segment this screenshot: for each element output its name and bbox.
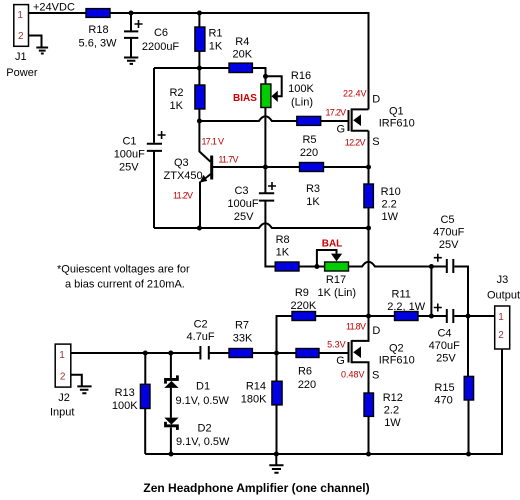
svg-text:11.8V: 11.8V bbox=[346, 322, 366, 332]
D2 triangle bbox=[164, 418, 178, 425]
svg-text:1K: 1K bbox=[209, 40, 223, 52]
svg-text:Output: Output bbox=[487, 289, 520, 301]
capacitor C3 plates bbox=[259, 193, 274, 200]
wire R14 column bbox=[276, 353, 278, 454]
Q3 collector lead bbox=[199, 152, 210, 162]
Q2 gate bar bbox=[348, 342, 350, 363]
capacitor C1 plates bbox=[147, 144, 162, 151]
svg-text:2: 2 bbox=[498, 330, 504, 341]
svg-text:22.4V: 22.4V bbox=[343, 89, 367, 99]
R16 wiper arrow bbox=[271, 91, 277, 102]
svg-text:1W: 1W bbox=[384, 417, 401, 429]
resistor R13 bbox=[140, 384, 150, 408]
svg-text:220: 220 bbox=[298, 379, 316, 391]
svg-text:5.3V: 5.3V bbox=[327, 340, 346, 350]
svg-text:S: S bbox=[372, 370, 379, 382]
wire C6 stubs bbox=[130, 13, 132, 58]
svg-text:0.48V: 0.48V bbox=[341, 370, 365, 380]
svg-text:1: 1 bbox=[59, 350, 65, 361]
wire C1 column bbox=[153, 68, 155, 228]
resistor R9 bbox=[292, 312, 316, 321]
svg-text:5.6, 3W: 5.6, 3W bbox=[79, 38, 118, 50]
D2 bar tick right down bbox=[176, 427, 179, 430]
svg-text:C4: C4 bbox=[437, 328, 451, 340]
wire R13 column bbox=[144, 353, 146, 454]
svg-text:R11: R11 bbox=[392, 288, 411, 300]
svg-text:J2: J2 bbox=[58, 392, 70, 404]
Q2 arrow bbox=[353, 346, 361, 358]
svg-text:17.2V: 17.2V bbox=[325, 108, 346, 118]
transistor Q2 IRF610 bbox=[348, 316, 369, 454]
wire gate row y121 with hop over R16 column bbox=[199, 116, 348, 121]
svg-text:R16: R16 bbox=[291, 70, 311, 82]
junction node R16 top wiper bbox=[263, 74, 268, 79]
svg-text:2: 2 bbox=[60, 371, 66, 382]
resistor R18 bbox=[86, 9, 110, 18]
svg-text:100uF: 100uF bbox=[114, 149, 145, 161]
D1 bar tick right up bbox=[176, 375, 179, 378]
resistor R7 bbox=[229, 349, 252, 358]
svg-text:1: 1 bbox=[498, 312, 504, 323]
junction node R13 top bbox=[143, 351, 148, 356]
svg-text:a bias current of 210mA.: a bias current of 210mA. bbox=[65, 279, 185, 291]
D2 bar tick left up bbox=[164, 422, 167, 425]
svg-text:J1: J1 bbox=[15, 51, 27, 63]
svg-text:470uF: 470uF bbox=[433, 227, 464, 239]
connector J3 box bbox=[495, 306, 510, 349]
resistor R8 bbox=[275, 262, 299, 271]
svg-text:1K (Lin): 1K (Lin) bbox=[318, 287, 357, 299]
svg-text:D: D bbox=[372, 94, 380, 106]
junction node R7 R6 R14 bbox=[274, 351, 279, 356]
svg-text:11.7V: 11.7V bbox=[218, 155, 238, 165]
C4 plus sign bbox=[434, 304, 442, 312]
svg-text:1: 1 bbox=[17, 10, 23, 21]
svg-text:2.2, 1W: 2.2, 1W bbox=[387, 301, 426, 313]
svg-text:1K: 1K bbox=[276, 247, 290, 259]
C5 plus sign bbox=[434, 254, 442, 262]
diode D2 zener bbox=[164, 418, 179, 430]
svg-text:2200uF: 2200uF bbox=[142, 41, 180, 53]
Q1 arrow bbox=[353, 114, 361, 126]
svg-text:IRF610: IRF610 bbox=[379, 355, 415, 367]
svg-text:220: 220 bbox=[300, 147, 318, 159]
wire right column Q1 source to Q2 drain node bbox=[368, 131, 370, 316]
svg-text:1W: 1W bbox=[382, 211, 399, 223]
wire output row y316 bbox=[369, 315, 495, 317]
C1 plus sign bbox=[158, 131, 166, 139]
junction node R10 bottom mid rail bbox=[366, 226, 371, 231]
Q3 emitter arrowhead bbox=[200, 175, 208, 183]
resistor R12 bbox=[364, 393, 374, 416]
junction node Q3 base row C3 bbox=[263, 165, 268, 170]
resistor R6 bbox=[296, 349, 319, 358]
resistor R14 bbox=[272, 381, 282, 405]
junction node C4 right J3 bbox=[466, 314, 471, 319]
transistor Q3 ZTX450 bbox=[199, 152, 213, 183]
junction node C4 left bbox=[429, 314, 434, 319]
svg-text:R10: R10 bbox=[381, 186, 401, 198]
resistor R11 bbox=[395, 312, 419, 321]
svg-text:Q3: Q3 bbox=[174, 157, 189, 169]
junction node Q3 emitter mid rail bbox=[197, 226, 202, 231]
connector J1 box bbox=[14, 5, 29, 47]
junction node C5 left bbox=[429, 264, 434, 269]
svg-text:1K: 1K bbox=[170, 100, 184, 112]
junction node D1 top bbox=[168, 351, 173, 356]
Q1 channel bar bbox=[351, 108, 353, 131]
svg-text:100K: 100K bbox=[112, 400, 138, 412]
svg-text:C2: C2 bbox=[194, 319, 208, 331]
capacitor C5 plates bbox=[447, 259, 454, 273]
capacitor C6 plates bbox=[124, 31, 138, 38]
transistor Q1 IRF610 bbox=[348, 108, 369, 131]
wire C3 bottom to BAL row through hop to C5 bbox=[265, 201, 446, 267]
svg-text:BIAS: BIAS bbox=[233, 93, 257, 104]
svg-text:2: 2 bbox=[18, 31, 24, 42]
svg-text:470: 470 bbox=[434, 394, 452, 406]
junction node R2 bottom gate row bbox=[197, 119, 202, 124]
svg-text:9.1V, 0.5W: 9.1V, 0.5W bbox=[176, 395, 230, 407]
resistor R2 bbox=[195, 85, 205, 109]
svg-text:33K: 33K bbox=[233, 332, 253, 344]
Q3 emitter lead bbox=[201, 174, 211, 182]
wire R17 wiper loop bbox=[317, 250, 337, 267]
svg-text:100K: 100K bbox=[288, 83, 314, 95]
svg-text:G: G bbox=[336, 124, 345, 136]
wire input row left of C2 bbox=[71, 352, 200, 354]
wire R15 column bbox=[467, 316, 470, 454]
svg-text:25V: 25V bbox=[119, 162, 139, 174]
diode D1 zener bbox=[164, 375, 179, 388]
Q2 channel bar bbox=[351, 340, 353, 363]
svg-text:R5: R5 bbox=[302, 134, 316, 146]
junction node R12 bottom rail bbox=[366, 452, 371, 457]
R17 wiper arrow bbox=[331, 254, 342, 262]
junction node R14 bottom ground bbox=[274, 452, 279, 457]
ground at bottom rail bbox=[269, 465, 283, 473]
capacitor C2 plates bbox=[200, 346, 208, 360]
svg-text:R9: R9 bbox=[295, 287, 309, 299]
svg-text:C1: C1 bbox=[122, 136, 136, 148]
Q3 bar bbox=[210, 156, 213, 180]
svg-text:25V: 25V bbox=[234, 211, 254, 223]
svg-text:J3: J3 bbox=[497, 274, 509, 286]
junction node R15 bottom rail bbox=[466, 452, 471, 457]
wire R16 wiper loop bbox=[266, 76, 282, 96]
svg-text:Zen Headphone Amplifier (one c: Zen Headphone Amplifier (one channel) bbox=[143, 481, 369, 495]
svg-text:11.2V: 11.2V bbox=[173, 190, 193, 200]
svg-text:Q1: Q1 bbox=[389, 105, 404, 117]
Q1 drain lead bbox=[352, 108, 369, 110]
svg-text:9.1V, 0.5W: 9.1V, 0.5W bbox=[176, 436, 230, 448]
potentiometer R17 body bbox=[325, 262, 349, 271]
ground at J2 pin2 bbox=[77, 386, 91, 393]
svg-text:25V: 25V bbox=[436, 353, 456, 365]
ground below C6 bbox=[124, 58, 138, 64]
junction node R1 bottom R4 bbox=[197, 66, 202, 71]
svg-text:100uF: 100uF bbox=[227, 198, 258, 210]
svg-text:(Lin): (Lin) bbox=[291, 97, 313, 109]
capacitor C4 plates bbox=[447, 309, 454, 323]
svg-text:D: D bbox=[372, 325, 380, 337]
svg-text:C3: C3 bbox=[234, 185, 248, 197]
resistor R3 bbox=[300, 163, 324, 172]
svg-text:IRF610: IRF610 bbox=[379, 117, 415, 129]
svg-text:R7: R7 bbox=[235, 320, 249, 332]
C6 plus sign bbox=[135, 20, 143, 28]
svg-text:R13: R13 bbox=[115, 387, 135, 399]
C3 plus sign bbox=[268, 182, 276, 190]
wire input row right of C2 to Q2 gate bbox=[210, 352, 349, 354]
svg-text:R8: R8 bbox=[276, 234, 290, 246]
svg-text:Q2: Q2 bbox=[389, 343, 404, 355]
wire ground stub bottom bbox=[275, 454, 277, 465]
resistor R4 bbox=[229, 63, 252, 72]
wire mid rail y228 with hop over C3 column bbox=[154, 223, 369, 228]
Q2 drain lead bbox=[352, 316, 369, 341]
wire Q3 emitter to mid rail bbox=[199, 182, 201, 229]
junction node R8 R17 wiper bbox=[314, 264, 319, 269]
wire row y167 base of Q3 to R10 top bbox=[213, 166, 369, 168]
wire diode column bbox=[170, 353, 172, 454]
svg-text:R6: R6 bbox=[298, 366, 312, 378]
svg-text:BAL: BAL bbox=[322, 239, 343, 250]
svg-text:Input: Input bbox=[50, 407, 74, 419]
wire C5/C4 link column bbox=[430, 267, 432, 317]
svg-text:R12: R12 bbox=[383, 392, 403, 404]
resistor R1 bbox=[195, 27, 205, 51]
wire row y68 from left column through R4 to R16 top bbox=[154, 68, 266, 84]
svg-text:470uF: 470uF bbox=[429, 340, 460, 352]
ground at J1 pin2 bbox=[36, 48, 48, 54]
svg-text:25V: 25V bbox=[439, 239, 459, 251]
svg-text:20K: 20K bbox=[233, 49, 253, 61]
svg-text:R17: R17 bbox=[326, 274, 346, 286]
svg-text:4.7uF: 4.7uF bbox=[187, 331, 215, 343]
wire J2 pin2 to ground bbox=[71, 375, 82, 387]
svg-text:1K: 1K bbox=[306, 196, 320, 208]
svg-text:R1: R1 bbox=[208, 27, 222, 39]
junction node R1 top bbox=[197, 11, 202, 16]
junction node D2 bottom rail bbox=[169, 452, 174, 457]
Q2 source lead bbox=[352, 362, 369, 454]
svg-text:G: G bbox=[336, 355, 345, 367]
svg-text:D1: D1 bbox=[196, 381, 210, 393]
D1 bar tick left down bbox=[164, 381, 167, 384]
svg-text:+24VDC: +24VDC bbox=[33, 1, 75, 13]
wire top rail from J1 pin1 to top-right corner down to Q1 drain bbox=[29, 13, 369, 109]
svg-text:R15: R15 bbox=[434, 382, 454, 394]
resistor R10 bbox=[364, 184, 374, 208]
potentiometer R16 body bbox=[261, 84, 271, 108]
connector J2 box bbox=[55, 344, 71, 387]
svg-text:12.2V: 12.2V bbox=[345, 138, 366, 148]
svg-text:2.2: 2.2 bbox=[384, 405, 399, 417]
svg-text:ZTX450: ZTX450 bbox=[164, 170, 203, 182]
Q1 gate bar bbox=[348, 110, 350, 131]
resistor R5 bbox=[297, 116, 321, 125]
svg-text:D2: D2 bbox=[198, 423, 212, 435]
wire R16 bottom through hop rows to C3 top bbox=[264, 108, 266, 193]
D1 cathode bar bbox=[164, 378, 179, 381]
svg-text:R18: R18 bbox=[88, 24, 108, 36]
svg-text:R14: R14 bbox=[246, 381, 266, 393]
svg-text:*Quiescent voltages are for: *Quiescent voltages are for bbox=[57, 264, 190, 276]
svg-text:S: S bbox=[372, 136, 379, 148]
junction node Q2 drain output bbox=[366, 314, 371, 319]
svg-text:180K: 180K bbox=[241, 393, 267, 405]
D2 cathode bar bbox=[164, 424, 179, 427]
wire R9 row and column bbox=[277, 316, 369, 353]
wire C5 right to output column bbox=[454, 267, 468, 317]
D1 triangle bbox=[164, 381, 178, 388]
svg-text:17.1 V: 17.1 V bbox=[202, 137, 225, 147]
svg-text:Power: Power bbox=[6, 67, 38, 79]
svg-text:C5: C5 bbox=[440, 214, 454, 226]
svg-text:2.2: 2.2 bbox=[382, 199, 397, 211]
svg-text:R3: R3 bbox=[306, 183, 320, 195]
wire J1 pin2 to ground stub bbox=[29, 36, 42, 48]
svg-text:220K: 220K bbox=[291, 300, 317, 312]
wire R1/R2 column down to Q3 collector bbox=[198, 13, 200, 152]
svg-text:R4: R4 bbox=[235, 36, 249, 48]
resistor R15 bbox=[464, 376, 473, 400]
svg-text:R2: R2 bbox=[169, 87, 183, 99]
junction node Q1 source R10 top bbox=[366, 165, 371, 170]
wire bottom ground rail to J3 pin2 bbox=[145, 349, 502, 454]
Q1 source lead bbox=[352, 130, 369, 132]
svg-text:C6: C6 bbox=[154, 27, 168, 39]
junction node J1-C6 rail bbox=[129, 11, 134, 16]
